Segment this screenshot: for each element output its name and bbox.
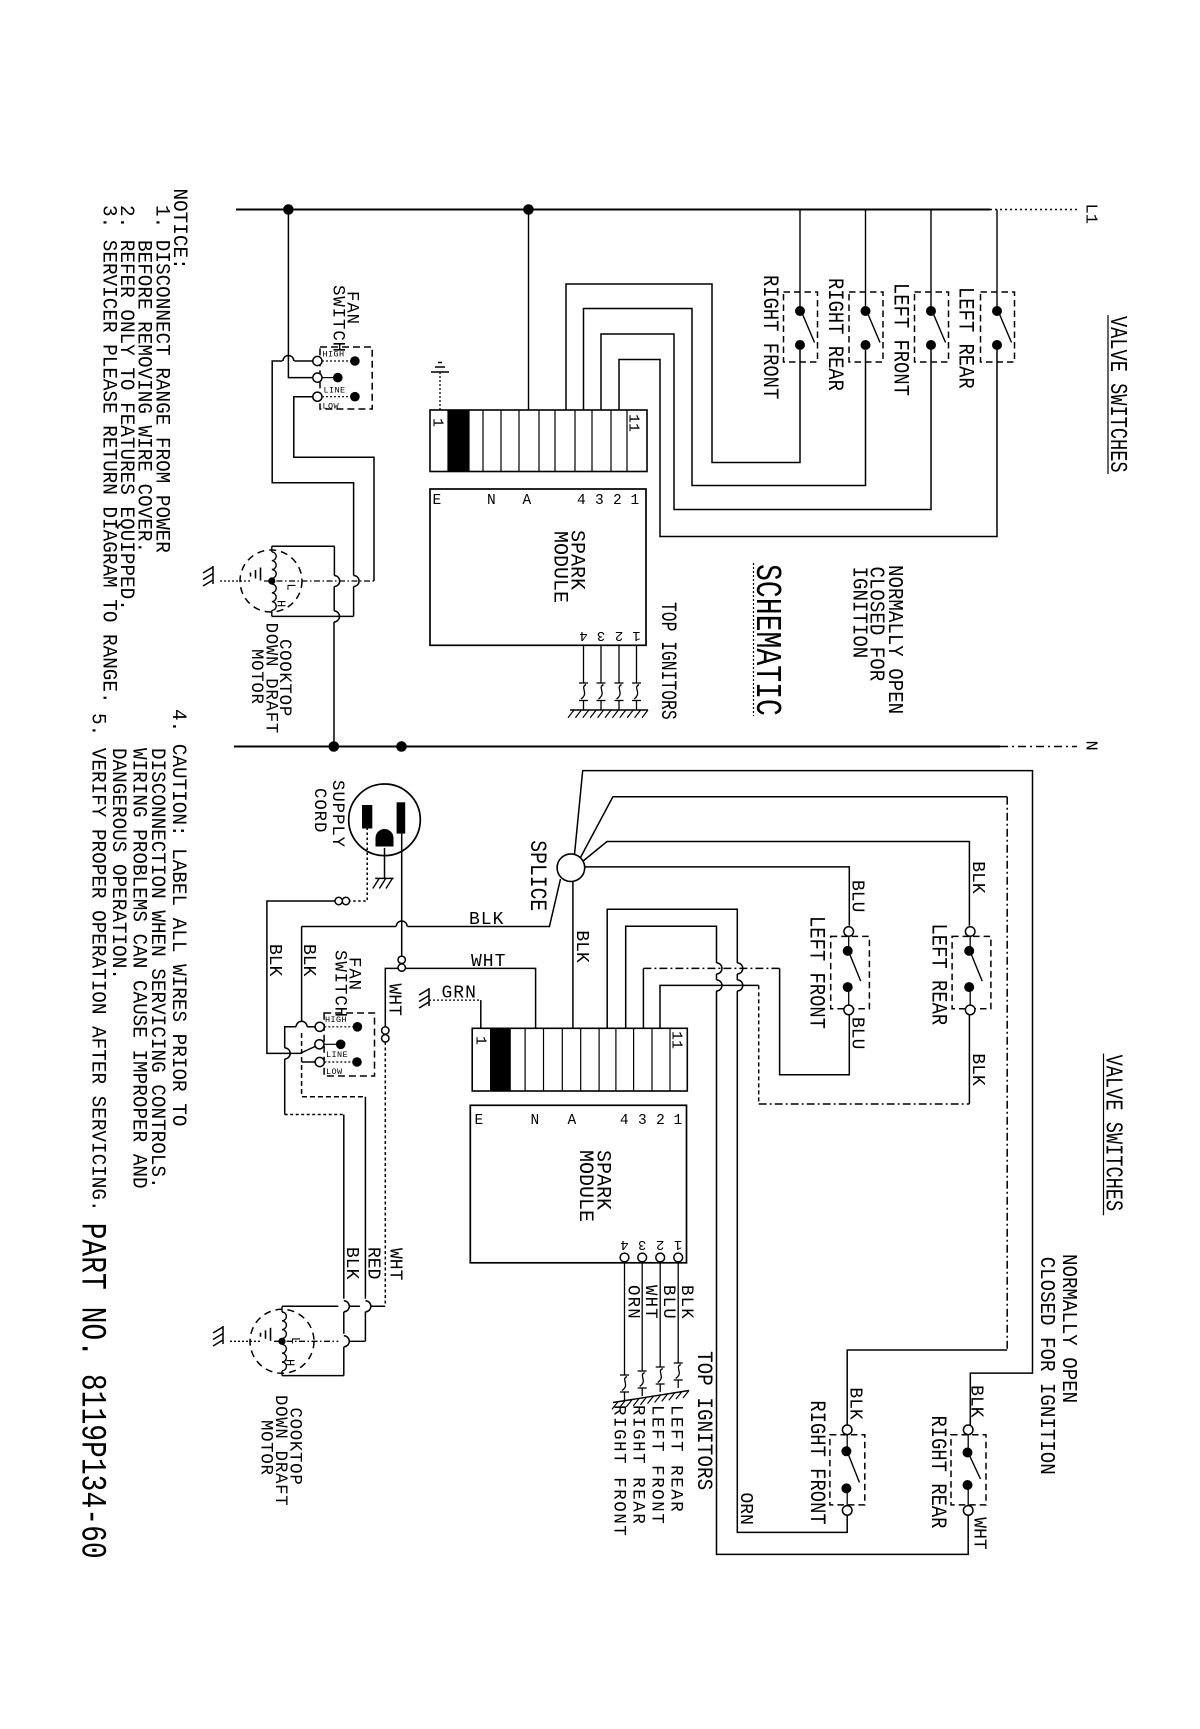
svg-text:WHT: WHT — [385, 1248, 405, 1281]
wire: connector to LEFT REAR valve return BLK — [660, 985, 759, 1028]
svg-text:WHT: WHT — [471, 952, 506, 972]
svg-text:3. SERVICER PLEASE RETURN DIAG: 3. SERVICER PLEASE RETURN DIAGRAM TO RAN… — [97, 205, 121, 704]
svg-text:BLK: BLK — [845, 1387, 865, 1420]
top ignitor wires with spark gaps (wiring) — [612, 1263, 689, 1409]
svg-text:LOW: LOW — [323, 402, 340, 412]
svg-text:SCHEMATIC: SCHEMATIC — [746, 564, 787, 716]
label VALVE SWITCHES (schematic) — [1103, 315, 1130, 474]
valve switch LEFT REAR (schematic) — [981, 210, 1015, 363]
wire: motor bottom edge to BLK — [282, 1375, 344, 1377]
svg-text:2: 2 — [615, 627, 623, 643]
svg-text:4: 4 — [579, 627, 587, 643]
svg-text:11: 11 — [625, 414, 642, 432]
svg-text:SWITCH: SWITCH — [328, 285, 347, 353]
svg-text:RIGHT FRONT: RIGHT FRONT — [757, 275, 782, 399]
supply cord ground — [373, 848, 394, 889]
terminal connector strip CN1 (schematic) — [429, 410, 648, 472]
wire: L1 to spark module pin A — [528, 210, 530, 411]
svg-text:A: A — [568, 1113, 577, 1129]
supply cord plug P1 — [349, 784, 421, 856]
wire: valve switch LEFT REAR to connector (schematic) — [619, 350, 997, 537]
motor frame ground (schematic) — [203, 566, 250, 586]
L1 power rail — [236, 209, 1079, 211]
wire: splice ray to LEFT FRONT valve — [585, 867, 850, 926]
svg-text:LEFT FRONT: LEFT FRONT — [803, 916, 828, 1029]
notice text block — [97, 189, 191, 704]
label SUPPLY CORD — [309, 780, 346, 848]
valve switch RIGHT FRONT (wiring) — [830, 1425, 865, 1515]
svg-text:E: E — [475, 1113, 484, 1129]
N power rail — [234, 746, 1077, 748]
wire: connector to RIGHT FRONT valve return ORN — [607, 909, 847, 1532]
wire: splice down BLK to connector — [571, 882, 591, 1029]
terminal connector strip CN1 (wiring) — [472, 1028, 688, 1091]
svg-text:1: 1 — [632, 627, 640, 643]
wire: motor center tap to RED — [274, 1340, 365, 1342]
svg-text:H: H — [274, 600, 288, 607]
svg-text:MOTOR: MOTOR — [256, 1420, 275, 1476]
wire: valve switch LEFT FRONT to connector (schematic) — [601, 334, 931, 510]
svg-text:VALVE SWITCHES: VALVE SWITCHES — [1103, 316, 1130, 473]
spark module U1 (schematic) — [430, 489, 646, 645]
wire: motor common to N rail — [334, 546, 340, 746]
wire: supply WHT (right prong) — [382, 834, 406, 1307]
svg-text:IGNITION: IGNITION — [847, 567, 871, 659]
wire: splice ray to LEFT REAR valve — [583, 842, 970, 926]
earth ground at spark module pin E (schematic) — [431, 363, 449, 411]
svg-text:RIGHT FRONT: RIGHT FRONT — [804, 1400, 829, 1524]
caution text block — [86, 709, 190, 1212]
label FAN SWITCH (schematic) — [328, 285, 361, 353]
svg-text:L1: L1 — [1081, 204, 1100, 224]
svg-text:BLK: BLK — [571, 930, 591, 963]
svg-text:BLU: BLU — [847, 880, 867, 912]
svg-text:A: A — [523, 493, 532, 509]
svg-text:N: N — [487, 493, 496, 509]
svg-text:5. VERIFY PROPER OPERATION AFT: 5. VERIFY PROPER OPERATION AFTER SERVICI… — [86, 713, 110, 1212]
wire: motor bottom edge (H feed) — [272, 615, 354, 617]
cooktop down draft motor M1 (schematic) — [240, 546, 302, 616]
svg-text:MOTOR: MOTOR — [246, 649, 265, 705]
wire: motor center tap line (schematic) — [264, 580, 374, 582]
svg-text:VALVE SWITCHES: VALVE SWITCHES — [1099, 1055, 1126, 1212]
label COOKTOP DOWN DRAFT MOTOR (wiring) — [256, 1395, 304, 1506]
svg-text:L: L — [288, 1337, 302, 1344]
wire: fan HIGH to motor BLK — [285, 1021, 350, 1375]
ignitor wire labels ORN WHT BLU BLK — [623, 1285, 696, 1320]
svg-text:BLK: BLK — [967, 1053, 987, 1086]
label FAN SWITCH (wiring) — [330, 950, 363, 1018]
svg-text:LINE: LINE — [326, 1050, 348, 1060]
svg-text:BLU: BLU — [847, 1017, 867, 1049]
svg-text:RIGHT REAR: RIGHT REAR — [822, 278, 847, 391]
svg-text:SWITCH: SWITCH — [330, 950, 349, 1018]
svg-text:ORN: ORN — [623, 1285, 642, 1320]
svg-text:N: N — [1081, 741, 1100, 751]
svg-text:3: 3 — [638, 1236, 646, 1252]
wire: splice BLK to fan LOW and motor via RED — [302, 927, 371, 1342]
svg-text:BLK: BLK — [967, 861, 987, 894]
svg-text:BLK: BLK — [469, 910, 504, 930]
wire: splice ray to RIGHT FRONT valve — [581, 797, 1008, 858]
wire: valve switch RIGHT REAR to connector (schematic) — [584, 309, 866, 486]
svg-text:CLOSED FOR IGNITION: CLOSED FOR IGNITION — [1035, 1257, 1059, 1475]
spark module U1 (wiring) — [470, 1105, 686, 1263]
svg-text:SPLICE: SPLICE — [524, 840, 550, 911]
svg-text:LOW: LOW — [326, 1067, 343, 1077]
valve switch RIGHT REAR (schematic) — [849, 210, 883, 363]
junction on L1 at fan switch wire — [283, 204, 294, 215]
svg-text:3: 3 — [638, 1113, 647, 1129]
svg-text:N: N — [531, 1113, 540, 1129]
svg-text:BLK: BLK — [264, 944, 284, 977]
wire: motor top edge / common (schematic) — [272, 545, 335, 547]
svg-text:WHT: WHT — [969, 1517, 989, 1550]
svg-text:MODULE: MODULE — [548, 531, 571, 603]
svg-text:WHT: WHT — [384, 984, 404, 1017]
svg-text:LEFT FRONT: LEFT FRONT — [647, 1405, 666, 1525]
svg-text:LEFT FRONT: LEFT FRONT — [887, 283, 912, 396]
junction on N at spark module N wire — [396, 741, 407, 752]
svg-text:H: H — [283, 1359, 297, 1366]
valve switch LEFT FRONT (schematic) — [915, 210, 949, 363]
label COOKTOP DOWN DRAFT MOTOR (schematic) — [246, 623, 293, 734]
svg-text:4: 4 — [620, 1236, 628, 1252]
svg-text:NORMALLY OPEN: NORMALLY OPEN — [1057, 1254, 1081, 1403]
wire: WHT to connector N pin — [405, 952, 535, 1028]
wire: BLK supply to splice — [302, 879, 561, 930]
svg-text:1: 1 — [429, 418, 446, 427]
ignitor position labels — [609, 1405, 685, 1537]
svg-text:BLU: BLU — [658, 1285, 677, 1320]
valve switch LEFT FRONT (wiring) — [831, 927, 870, 1015]
svg-text:2: 2 — [613, 493, 622, 509]
top ignitor spark gaps and grounds (schematic) — [568, 645, 648, 717]
svg-text:MODULE: MODULE — [573, 1150, 596, 1222]
label SCHEMATIC — [746, 563, 787, 716]
note NORMALLY OPEN CLOSED FOR IGNITION (schematic) — [847, 565, 906, 714]
svg-text:LEFT REAR: LEFT REAR — [925, 924, 950, 1026]
svg-text:GRN: GRN — [442, 984, 477, 1004]
svg-text:11: 11 — [668, 1031, 685, 1049]
svg-text:SUPPLY: SUPPLY — [327, 780, 346, 848]
motor frame ground (wiring) — [213, 1326, 261, 1346]
svg-text:RED: RED — [363, 1247, 383, 1279]
junction on N at motor common — [329, 741, 340, 752]
svg-text:RIGHT REAR: RIGHT REAR — [925, 1416, 950, 1529]
svg-text:BLK: BLK — [341, 1247, 361, 1280]
svg-text:TOP IGNITORS: TOP IGNITORS — [691, 1351, 715, 1490]
wire: valve switch RIGHT FRONT to connector (schematic) — [566, 284, 800, 463]
label VALVE SWITCHES (wiring) — [1099, 1054, 1126, 1216]
valve switch LEFT REAR (wiring) — [952, 927, 991, 1015]
svg-text:1: 1 — [674, 1113, 683, 1129]
svg-text:1: 1 — [472, 1036, 489, 1045]
valve switch RIGHT FRONT (schematic) — [784, 210, 818, 363]
wire: supply BLK (left prong) to fan switch LINE — [267, 828, 367, 1054]
fan switch FS1 (wiring) — [315, 1013, 375, 1077]
svg-text:CORD: CORD — [309, 788, 328, 833]
svg-text:TOP IGNITORS: TOP IGNITORS — [655, 602, 680, 720]
svg-text:LEFT REAR: LEFT REAR — [952, 287, 977, 389]
svg-text:BLK: BLK — [966, 1385, 986, 1418]
svg-text:E: E — [433, 493, 442, 509]
splice junction SP1 — [557, 854, 585, 882]
junction on L1 at spark module A wire — [523, 204, 534, 215]
note NORMALLY OPEN CLOSED FOR IGNITION (wiring) — [1035, 1254, 1081, 1475]
cooktop down draft motor M1 (wiring) — [250, 1306, 314, 1375]
valve switch RIGHT REAR (wiring) — [951, 1425, 986, 1515]
svg-text:2: 2 — [656, 1236, 664, 1252]
fan switch FS1 (schematic) — [313, 347, 372, 412]
svg-text:1: 1 — [631, 493, 640, 509]
svg-text:3: 3 — [597, 627, 605, 643]
svg-text:RIGHT REAR: RIGHT REAR — [628, 1405, 647, 1525]
svg-text:PART NO. 8119P134-60: PART NO. 8119P134-60 — [72, 1223, 112, 1559]
svg-text:BLK: BLK — [298, 944, 318, 977]
svg-text:4: 4 — [577, 493, 586, 509]
svg-text:1: 1 — [674, 1236, 682, 1252]
wire: connector to RIGHT REAR valve return WHT — [626, 926, 969, 1554]
svg-text:BLK: BLK — [676, 1285, 695, 1320]
wire: splice ray to RIGHT REAR valve (outermost) — [575, 771, 1033, 1426]
wire: fan HIGH to motor H winding (staircase) — [272, 356, 359, 617]
svg-text:2: 2 — [656, 1113, 665, 1129]
svg-text:4: 4 — [620, 1113, 629, 1129]
wire: connector to LEFT FRONT valve return BLU — [642, 968, 644, 1028]
svg-text:LINE: LINE — [324, 386, 346, 396]
module bottom pin bushings — [620, 1253, 629, 1262]
wire: GRN ground to connector E pin — [419, 984, 481, 1029]
svg-text:RIGHT FRONT: RIGHT FRONT — [609, 1405, 628, 1537]
svg-text:3: 3 — [595, 493, 604, 509]
svg-text:ORN: ORN — [735, 1493, 755, 1525]
wire: fan LOW to motor L winding (staircase) — [294, 397, 374, 581]
svg-text:L: L — [284, 584, 298, 591]
wire: L1 to fan switch LINE — [288, 210, 313, 378]
wire: fan LOW to BLK drop — [302, 1061, 316, 1063]
wire: motor top edge to WHT — [282, 1305, 385, 1307]
svg-text:WHT: WHT — [640, 1285, 659, 1320]
svg-text:LEFT REAR: LEFT REAR — [666, 1405, 685, 1513]
